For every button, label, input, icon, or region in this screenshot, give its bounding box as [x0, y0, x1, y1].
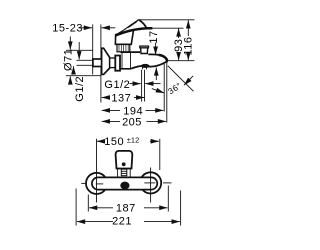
svg-text:Ø71: Ø71	[62, 49, 74, 71]
svg-text:±12: ±12	[127, 135, 139, 144]
svg-text:116: 116	[183, 36, 195, 55]
svg-text:205: 205	[122, 116, 142, 128]
svg-text:137: 137	[111, 92, 131, 104]
svg-text:36°: 36°	[166, 80, 183, 96]
svg-text:150: 150	[104, 136, 124, 148]
svg-text:17: 17	[148, 30, 160, 43]
svg-text:G1/2: G1/2	[74, 76, 86, 102]
svg-text:221: 221	[112, 216, 132, 228]
svg-text:G1/2: G1/2	[104, 79, 130, 91]
svg-text:187: 187	[116, 203, 136, 215]
svg-text:15-23: 15-23	[52, 23, 83, 35]
